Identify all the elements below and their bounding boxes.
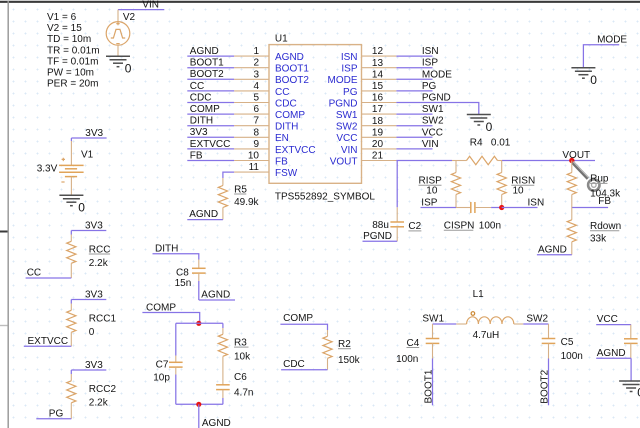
net CC (to pin 4): [187, 81, 234, 92]
svg-text:9: 9: [253, 139, 259, 150]
pin 11 (FSW): [234, 162, 298, 179]
svg-text:PER = 20m: PER = 20m: [47, 79, 98, 90]
net ISN (sense): [502, 197, 544, 208]
net PG: [36, 408, 71, 419]
svg-text:10: 10: [513, 186, 525, 197]
svg-text:PGND: PGND: [422, 93, 451, 104]
pin 17 (SW1): [336, 104, 397, 121]
svg-text:FSW: FSW: [275, 168, 298, 179]
svg-text:0: 0: [89, 327, 95, 338]
svg-text:20: 20: [372, 139, 384, 150]
net AGND (to pin 1): [187, 46, 234, 57]
net SW1 (pin 17): [396, 104, 444, 115]
svg-text:CDC: CDC: [275, 98, 297, 109]
junction COMP top: [196, 321, 201, 326]
pin 13 (ISP): [341, 58, 396, 75]
resistor R4 0.01 (current sense): [452, 138, 511, 165]
svg-text:2.2k: 2.2k: [89, 398, 109, 409]
net CDC (to pin 5): [187, 92, 234, 103]
svg-text:RCC1: RCC1: [89, 313, 117, 324]
svg-text:FB: FB: [275, 156, 288, 167]
svg-text:2: 2: [253, 58, 259, 69]
svg-text:EXTVCC: EXTVCC: [190, 139, 231, 150]
net EXTVCC: [24, 336, 72, 347]
svg-text:0: 0: [486, 120, 493, 134]
inductor L1 4.7uH: [456, 289, 523, 341]
svg-text:COMP: COMP: [190, 104, 220, 115]
svg-text:TD = 10m: TD = 10m: [47, 34, 91, 45]
svg-text:4: 4: [253, 81, 259, 92]
svg-text:V1: V1: [81, 149, 94, 160]
svg-text:AGND: AGND: [597, 348, 626, 359]
net BOOT1 (to pin 2): [187, 58, 234, 69]
net ISN (pin 12): [396, 46, 438, 57]
svg-text:3: 3: [253, 69, 259, 80]
svg-text:MODE: MODE: [597, 34, 627, 45]
svg-text:CDC: CDC: [283, 359, 305, 370]
svg-text:3V3: 3V3: [190, 127, 208, 138]
svg-text:3V3: 3V3: [85, 128, 103, 139]
net AGND (VCC cap): [596, 348, 631, 359]
svg-text:15: 15: [372, 81, 384, 92]
svg-text:BOOT1: BOOT1: [275, 64, 309, 75]
svg-text:AGND: AGND: [202, 418, 231, 428]
capacitor C7 10p: [153, 323, 182, 404]
svg-text:ISP: ISP: [341, 64, 357, 75]
net AGND (comp network): [199, 404, 231, 428]
svg-text:3.3V: 3.3V: [37, 164, 58, 175]
svg-text:0.01: 0.01: [491, 138, 511, 149]
svg-text:3V3: 3V3: [85, 289, 103, 300]
svg-text:11: 11: [249, 162, 260, 173]
svg-text:49.9k: 49.9k: [234, 197, 259, 208]
net EXTVCC (to pin 9): [187, 139, 234, 150]
ground 0 (MODE): [571, 68, 597, 87]
net BOOT1: [424, 359, 435, 406]
net COMP (to pin 6): [187, 104, 234, 115]
svg-text:EN: EN: [275, 133, 289, 144]
pin 19 (VCC): [336, 127, 396, 144]
resistor RCC2 2.2k: [67, 370, 117, 419]
svg-text:VIN: VIN: [422, 139, 439, 150]
net AGND (below R5): [187, 209, 223, 220]
capacitor C4 100n: [396, 324, 439, 365]
svg-text:VCC: VCC: [597, 314, 618, 325]
net 3V3 (above RCC): [71, 220, 106, 231]
pin 3 (BOOT2): [234, 69, 309, 86]
net CDC (R2): [281, 359, 327, 370]
svg-text:COMP: COMP: [275, 110, 305, 121]
svg-text:RCC2: RCC2: [89, 384, 117, 395]
resistor RCC 2.2k: [67, 231, 111, 279]
svg-text:BOOT2: BOOT2: [540, 369, 551, 403]
svg-text:SW2: SW2: [422, 116, 444, 127]
net SW2 (pin 18): [396, 116, 444, 127]
svg-text:AGND: AGND: [275, 52, 304, 63]
svg-text:BOOT1: BOOT1: [424, 369, 435, 403]
svg-text:TF = 0.01m: TF = 0.01m: [47, 56, 98, 67]
svg-text:SW2: SW2: [526, 314, 548, 325]
svg-text:7: 7: [253, 116, 259, 127]
svg-text:SW2: SW2: [336, 122, 358, 133]
svg-text:EXTVCC: EXTVCC: [275, 145, 316, 156]
net MODE (top right): [583, 34, 627, 67]
svg-text:V2: V2: [123, 12, 136, 23]
wire comp network top bar: [176, 322, 223, 324]
svg-text:CC: CC: [27, 268, 41, 279]
svg-text:4.7uH: 4.7uH: [473, 330, 500, 341]
svg-text:3V3: 3V3: [85, 220, 103, 231]
net COMP (R2): [280, 313, 327, 330]
pin 16 (PGND): [329, 93, 397, 110]
svg-text:8: 8: [253, 127, 259, 138]
svg-text:C6: C6: [234, 372, 247, 383]
net VCC (bottom right): [596, 314, 631, 325]
svg-text:AGND: AGND: [538, 244, 567, 255]
svg-text:BOOT2: BOOT2: [190, 69, 224, 80]
resistor Rdown 33k: [567, 208, 621, 255]
svg-text:R4: R4: [470, 138, 483, 149]
svg-text:33k: 33k: [590, 234, 607, 245]
capacitor C6 4.7n: [216, 356, 253, 404]
svg-text:100n: 100n: [561, 351, 583, 362]
svg-text:AGND: AGND: [189, 209, 218, 220]
resistor R2 150k: [323, 330, 361, 370]
wire CISPN to ISN node: [491, 207, 502, 209]
voltage probe marker: [573, 162, 600, 191]
svg-text:PG: PG: [422, 81, 437, 92]
svg-text:0: 0: [125, 62, 132, 76]
net COMP (left): [142, 302, 199, 323]
svg-text:FB: FB: [598, 196, 611, 207]
pin 15 (PG): [343, 81, 396, 98]
net AGND (below Rdown): [537, 244, 572, 255]
net BOOT2: [540, 359, 551, 406]
pin 10 (FB): [234, 151, 288, 168]
capacitor C8 15n: [175, 260, 206, 290]
svg-text:AGND: AGND: [190, 46, 219, 57]
net 3V3 (above RCC1): [71, 289, 106, 300]
net CC: [26, 268, 72, 279]
svg-text:FB: FB: [190, 150, 203, 161]
svg-text:COMP: COMP: [146, 302, 176, 313]
svg-text:MODE: MODE: [328, 75, 358, 86]
svg-text:0: 0: [590, 73, 597, 87]
svg-text:12: 12: [372, 46, 384, 57]
svg-text:17: 17: [372, 104, 384, 115]
svg-text:C8: C8: [176, 267, 189, 278]
svg-text:3V3: 3V3: [85, 360, 103, 371]
net FB (to pin 10): [187, 150, 234, 161]
svg-text:18: 18: [372, 116, 384, 127]
junction ISN node: [499, 205, 504, 210]
svg-text:100n: 100n: [396, 354, 418, 365]
svg-text:C5: C5: [561, 337, 574, 348]
svg-text:BOOT2: BOOT2: [275, 75, 309, 86]
ground 0 (below V2): [106, 56, 132, 75]
capacitor C5 100n: [542, 324, 583, 362]
svg-text:SW1: SW1: [422, 314, 444, 325]
svg-text:SW1: SW1: [336, 110, 358, 121]
wire pin21 drop to C2: [396, 161, 398, 208]
IC U1 TPS552892_SYMBOL: [269, 33, 375, 202]
svg-text:10: 10: [248, 151, 260, 162]
net 3V3 (above RCC2): [71, 360, 106, 371]
net VIN (pin 20): [396, 139, 438, 150]
pin 18 (SW2): [336, 116, 397, 133]
net AGND (below C8): [199, 281, 235, 301]
svg-text:PW = 10m: PW = 10m: [47, 68, 94, 79]
svg-text:4.7n: 4.7n: [234, 387, 253, 398]
pin 7 (DITH): [234, 116, 298, 133]
svg-text:TPS552892_SYMBOL: TPS552892_SYMBOL: [275, 191, 375, 202]
net BOOT2 (to pin 3): [187, 69, 234, 80]
svg-text:DITH: DITH: [190, 116, 213, 127]
svg-text:BOOT1: BOOT1: [190, 58, 224, 69]
svg-text:5: 5: [253, 93, 259, 104]
net MODE (pin 14): [396, 69, 452, 80]
voltage source V2 (VPULSE): [106, 10, 135, 57]
pin 14 (MODE): [328, 69, 397, 86]
wire VOUT rail (pin 21 to R4): [396, 160, 452, 162]
svg-text:ISP: ISP: [422, 58, 438, 69]
node VIN: [118, 0, 164, 11]
svg-text:100n: 100n: [479, 221, 501, 232]
resistor RISP 10: [419, 161, 461, 208]
net ISP (pin 13): [396, 58, 438, 69]
net DITH (to pin 7): [187, 116, 234, 127]
svg-text:CC: CC: [275, 87, 289, 98]
svg-text:SW1: SW1: [422, 104, 444, 115]
pin 12 (ISN): [341, 46, 397, 63]
svg-text:EXTVCC: EXTVCC: [28, 336, 69, 347]
svg-text:10k: 10k: [234, 351, 251, 362]
svg-text:CDC: CDC: [190, 92, 212, 103]
wire pin11 to R5: [223, 172, 234, 178]
pin 6 (COMP): [234, 104, 305, 121]
svg-text:PG: PG: [49, 408, 64, 419]
svg-text:DITH: DITH: [155, 244, 178, 255]
voltage source V1 3.3V (VDC battery): [37, 138, 94, 195]
svg-text:TR = 0.01m: TR = 0.01m: [47, 45, 100, 56]
ground 0 (PGND): [467, 115, 493, 134]
net SW1: [422, 314, 456, 325]
svg-text:ISN: ISN: [528, 197, 545, 208]
svg-text:DITH: DITH: [275, 122, 298, 133]
svg-text:VCC: VCC: [336, 133, 357, 144]
capacitor CISPN 100n: [444, 202, 501, 232]
pin 4 (CC): [234, 81, 289, 98]
svg-text:13: 13: [372, 58, 384, 69]
svg-text:16: 16: [372, 93, 384, 104]
svg-text:V2 = 15: V2 = 15: [47, 23, 82, 34]
svg-text:15n: 15n: [175, 278, 192, 289]
net PG (pin 15): [396, 81, 436, 92]
svg-text:VIN: VIN: [341, 145, 358, 156]
pin 21 (VOUT): [330, 151, 397, 168]
svg-text:21: 21: [372, 151, 384, 162]
svg-text:V1 = 6: V1 = 6: [47, 12, 77, 23]
svg-text:ISN: ISN: [422, 46, 439, 57]
svg-text:C7: C7: [156, 359, 169, 370]
net PGND (below C2): [363, 231, 398, 242]
net DITH: [153, 244, 199, 260]
ground 0 (below V1): [59, 195, 85, 214]
pin 20 (VIN): [341, 139, 397, 156]
net 3V3 (V1 output): [71, 128, 106, 139]
svg-text:PGND: PGND: [363, 231, 392, 242]
net FB: [572, 196, 612, 208]
ground 0 (bottom right): [619, 381, 640, 400]
svg-text:U1: U1: [275, 33, 288, 44]
svg-text:PGND: PGND: [329, 98, 358, 109]
resistor RCC1 0: [67, 300, 117, 347]
resistor RISN 10: [497, 161, 535, 208]
svg-text:10p: 10p: [153, 373, 170, 384]
pin 1 (AGND): [234, 46, 304, 63]
svg-text:10: 10: [426, 186, 438, 197]
resistor Rup 104.3k: [567, 161, 621, 208]
svg-text:L1: L1: [473, 289, 485, 300]
svg-text:88u: 88u: [372, 220, 389, 231]
svg-text:14: 14: [372, 69, 384, 80]
wire R4 to VOUT node: [502, 160, 595, 162]
junction COMP bottom: [196, 402, 201, 407]
wire AGND to ground: [630, 358, 632, 381]
svg-text:AGND: AGND: [201, 290, 230, 301]
svg-text:VCC: VCC: [422, 127, 443, 138]
resistor R3 10k: [218, 323, 251, 362]
svg-text:ISN: ISN: [341, 52, 358, 63]
svg-text:VIN: VIN: [142, 0, 159, 11]
parameter annotation: [47, 12, 100, 90]
svg-text:CC: CC: [190, 81, 204, 92]
pin 5 (CDC): [234, 93, 297, 110]
svg-text:1: 1: [253, 46, 259, 57]
node VOUT: [562, 150, 590, 163]
pin 8 (EN): [234, 127, 289, 144]
svg-text:COMP: COMP: [283, 313, 313, 324]
svg-text:MODE: MODE: [422, 69, 452, 80]
capacitor C2 88u: [372, 207, 421, 241]
net ISP: [421, 197, 457, 208]
resistor R5 49.9k: [218, 178, 259, 220]
net VCC (pin 19): [396, 127, 443, 138]
net PGND (pin 16) wire to ground: [396, 93, 478, 115]
net SW2: [523, 314, 548, 325]
svg-text:150k: 150k: [338, 355, 361, 366]
svg-text:0: 0: [78, 201, 85, 215]
svg-text:19: 19: [372, 127, 384, 138]
svg-text:2.2k: 2.2k: [89, 258, 109, 269]
svg-text:6: 6: [253, 104, 259, 115]
net 3V3 (to pin 8): [187, 127, 234, 138]
svg-text:VOUT: VOUT: [330, 156, 358, 167]
capacitor VCC decoupling: [624, 325, 638, 359]
wire comp network bottom bar: [176, 403, 223, 405]
pin 9 (EXTVCC): [234, 139, 315, 156]
svg-text:PG: PG: [343, 87, 358, 98]
svg-text:VOUT: VOUT: [562, 150, 590, 161]
svg-text:ISP: ISP: [421, 197, 437, 208]
pin 2 (BOOT1): [234, 58, 309, 75]
